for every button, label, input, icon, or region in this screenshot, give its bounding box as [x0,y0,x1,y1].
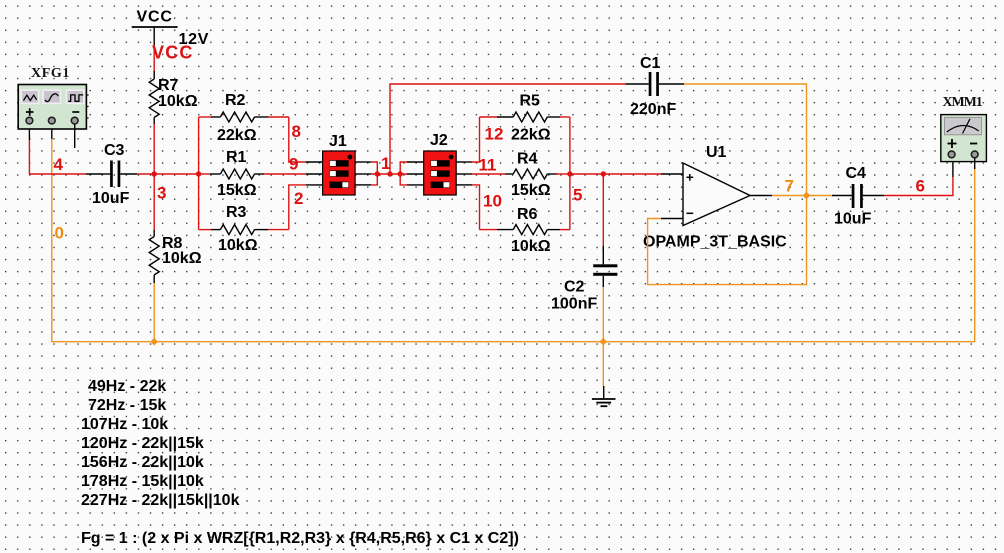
svg-text:22kΩ: 22kΩ [511,127,551,144]
junction node1 b [387,171,392,176]
svg-text:Fg = 1 : (2 x Pi x WRZ[{R1,R2,: Fg = 1 : (2 x Pi x WRZ[{R1,R2,R3} x {R4,… [81,530,519,547]
svg-text:6: 6 [916,177,925,196]
instrument XFG1 [18,85,86,130]
R4 labels [511,151,551,200]
junction node5 a [567,171,572,176]
svg-text:178Hz - 15k||10k: 178Hz - 15k||10k [81,473,204,490]
R3 labels [218,204,258,254]
wire net4 [29,124,86,174]
wire net3 horizontal [137,173,199,175]
wire net5 right bank bus [556,117,661,230]
svg-text:R7: R7 [158,77,179,94]
R2 labels [217,92,257,144]
junction node5 b [601,171,606,176]
left resistor bank bus [198,117,200,230]
wire net3 down to R8 [153,174,155,230]
capacitor C2 [593,246,617,287]
R5 labels [511,93,551,144]
wire net3 to R1 [199,173,210,175]
wire C2 to bus [602,287,604,342]
power VCC symbol [132,9,178,46]
svg-text:C2: C2 [564,279,585,296]
svg-text:VCC: VCC [152,43,194,63]
wire R8 to bus [153,283,155,342]
svg-text:U1: U1 [706,144,727,161]
svg-text:9: 9 [289,155,298,174]
resistor R5 [480,112,570,122]
wire net6 [884,158,953,196]
resistor R8 [149,230,159,283]
C4 labels [834,165,872,228]
svg-text:107Hz - 10k: 107Hz - 10k [81,416,168,433]
switch J2 [407,151,472,195]
ground [592,386,616,406]
wire net0 orange bus [52,124,975,342]
resistor R3 [199,225,289,235]
wire net1 J1 side [371,162,407,185]
svg-text:XMM1: XMM1 [943,95,983,110]
svg-text:10kΩ: 10kΩ [511,238,551,255]
svg-text:1: 1 [381,154,390,173]
capacitor C3 [86,161,137,188]
wire net1 riser to C1 [390,84,626,174]
switch J1 [306,151,371,195]
svg-text:156Hz - 22k||10k: 156Hz - 22k||10k [81,454,204,471]
svg-text:220nF: 220nF [630,101,676,118]
svg-text:12: 12 [485,125,504,144]
svg-text:8: 8 [292,122,301,141]
junction node7 [803,192,811,200]
wire net3 vertical [153,124,155,174]
junction node1 a [375,171,380,176]
svg-text:3: 3 [157,184,166,203]
junction node1 c [398,171,403,176]
svg-text:15kΩ: 15kΩ [217,182,257,199]
resistor R7 [149,71,159,124]
XFG1 minus stub [74,124,76,148]
U1 labels [643,144,787,251]
wire net12 [472,117,480,162]
svg-text:J2: J2 [430,132,448,149]
svg-text:49Hz - 22k: 49Hz - 22k [88,378,166,395]
frequency table [81,378,240,509]
svg-text:10kΩ: 10kΩ [162,250,202,267]
svg-text:R1: R1 [226,149,247,166]
svg-text:10: 10 [483,192,502,211]
wire net7 feedback [648,196,807,285]
wire net10 [472,185,480,230]
wire net5 down to C2 [602,174,604,252]
R6 labels [511,206,551,255]
svg-text:2: 2 [294,189,303,208]
wire net8 [289,117,306,162]
svg-text:5: 5 [573,186,582,205]
svg-text:C1: C1 [640,55,661,72]
svg-text:120Hz - 22k||15k: 120Hz - 22k||15k [81,435,204,452]
svg-text:C3: C3 [104,142,125,159]
svg-text:C4: C4 [846,165,867,182]
wire bus to ground [602,342,604,387]
R7 labels [158,77,198,110]
svg-text:22kΩ: 22kΩ [217,127,257,144]
svg-text:11: 11 [479,156,497,175]
svg-text:10kΩ: 10kΩ [218,237,258,254]
svg-text:100nF: 100nF [551,296,597,313]
wire net7 output [772,195,832,197]
C1 labels [630,55,676,118]
svg-text:72Hz - 15k: 72Hz - 15k [88,397,166,414]
svg-text:10uF: 10uF [834,211,872,228]
capacitor C1 [626,72,685,96]
junction net3 bank [196,171,201,176]
svg-text:R2: R2 [225,92,246,109]
R8 labels [162,235,202,267]
svg-text:10uF: 10uF [92,190,130,207]
svg-text:0: 0 [55,224,64,243]
resistor R4 [505,169,558,179]
instrument XMM1 [941,115,987,162]
junction node3 [152,171,157,176]
wire net7 top from C1 [684,84,807,196]
wire net9 R1 to J1 [264,173,306,175]
resistor R6 [480,225,570,235]
svg-text:R3: R3 [226,204,247,221]
resistor R1 [210,169,264,179]
wire VCC to R7 [153,45,155,72]
C2 labels [551,279,597,313]
svg-text:R5: R5 [520,93,541,110]
wire net2 [289,185,306,230]
svg-text:4: 4 [54,155,64,174]
svg-text:15kΩ: 15kΩ [511,182,551,199]
C3 labels [92,142,130,207]
wire net11 [472,173,505,175]
wire net1 J2 side [400,162,407,185]
svg-text:J1: J1 [329,133,347,150]
svg-text:R4: R4 [517,151,538,168]
junction bus gnd [599,338,607,346]
R1 labels [217,149,257,199]
svg-text:10kΩ: 10kΩ [158,93,198,110]
svg-text:227Hz - 22k||15k||10k: 227Hz - 22k||15k||10k [81,492,240,509]
svg-text:VCC: VCC [137,9,173,26]
svg-text:XFG1: XFG1 [31,66,70,81]
junction bus R8 [150,338,158,346]
resistor R2 [199,112,289,122]
op-amp U1 [661,163,772,226]
XFG1 side ticks [86,95,88,118]
svg-text:OPAMP_3T_BASIC: OPAMP_3T_BASIC [643,234,787,251]
capacitor C4 [832,184,884,208]
svg-text:R6: R6 [517,206,538,223]
XMM1 minus stub [974,158,976,169]
svg-text:7: 7 [785,176,794,195]
